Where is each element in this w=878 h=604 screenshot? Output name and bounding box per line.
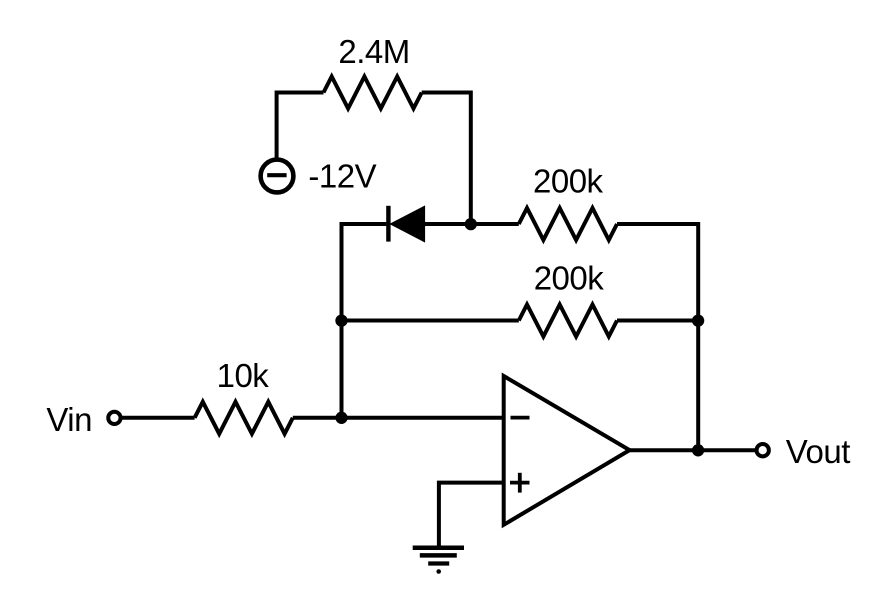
- ground dot: [436, 569, 441, 574]
- svg-text:-12V: -12V: [308, 158, 376, 195]
- op-amp plus sign: [510, 481, 530, 485]
- svg-text:200k: 200k: [533, 162, 604, 199]
- op-amp minus sign: [511, 416, 530, 420]
- wire Vin to R1: [121, 416, 195, 420]
- terminal Vin: [108, 412, 120, 424]
- diode D1 triangle: [390, 206, 424, 242]
- wire vertical rail B (right feedback): [696, 222, 700, 450]
- svg-text:Vout: Vout: [786, 433, 850, 470]
- resistor R4 2.4M: [324, 77, 422, 109]
- node B junction dot (mid rail left): [335, 314, 347, 326]
- resistor R3 200k (upper): [519, 208, 617, 240]
- wire non-inverting input to ground: [439, 483, 504, 548]
- node D junction dot (top rail / 2.4M drop): [465, 218, 477, 230]
- wire 2.4M left + drop to source: [277, 93, 324, 159]
- ground bar 3: [428, 561, 449, 565]
- node E junction dot (output): [692, 444, 704, 456]
- ground bar 1: [413, 546, 464, 551]
- resistor R1 10k: [195, 402, 293, 434]
- wire mid rail right: [617, 319, 698, 323]
- wire vertical rail A and top-rail corner to diode: [342, 224, 387, 418]
- resistor R2 200k (lower): [519, 305, 617, 337]
- wire 2.4M right + drop to top rail: [422, 93, 471, 225]
- svg-text:2.4M: 2.4M: [338, 33, 409, 70]
- terminal Vout: [757, 444, 769, 456]
- source V1 minus bar: [267, 173, 286, 177]
- svg-text:200k: 200k: [534, 260, 605, 297]
- diode D1 cathode bar: [386, 206, 390, 242]
- svg-text:Vin: Vin: [46, 401, 92, 438]
- wire R1 to op-amp inverting input: [293, 416, 504, 420]
- node A junction dot (inverting input): [335, 412, 347, 424]
- wire diode to R3: [425, 222, 519, 226]
- svg-text:10k: 10k: [217, 357, 270, 394]
- wire mid rail left: [342, 319, 519, 323]
- node C junction dot (mid rail right): [692, 314, 704, 326]
- ground bar 2: [420, 553, 457, 558]
- op-amp U1 triangle: [504, 376, 630, 525]
- source V1 circle: [261, 160, 294, 193]
- wire op-amp output: [630, 448, 756, 452]
- wire top rail right: [617, 222, 698, 226]
